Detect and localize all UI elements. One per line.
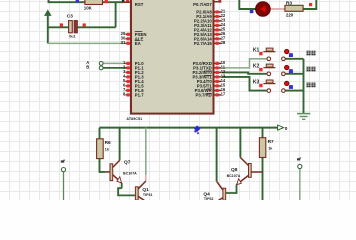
pin 6 P1.5 stub	[126, 85, 132, 87]
wire rail drop to R7 top	[262, 128, 264, 138]
svg-text:R6: R6	[105, 140, 111, 146]
wire pin 12 to button K2	[222, 72, 267, 73]
pin 11 P3.1 stub	[214, 67, 222, 69]
pin 24 P2.3 stub	[214, 24, 222, 26]
pin 22 P2.1 stub	[214, 16, 222, 18]
svg-text:Q8: Q8	[231, 167, 238, 173]
wire C3 left plate to VCC stem	[48, 26, 69, 28]
pin 21 P2.0 stub	[214, 11, 222, 13]
pin 28 P2.7 stub	[214, 42, 222, 44]
resistor R3	[285, 5, 303, 11]
node red square at C3 left pin	[60, 23, 63, 26]
pin 13 P3.3 stub	[214, 76, 222, 78]
svg-text:P0.7/AD7: P0.7/AD7	[193, 2, 212, 7]
node red square at K3	[259, 84, 262, 87]
svg-text:10K: 10K	[84, 6, 93, 11]
svg-text:BC107A: BC107A	[123, 172, 137, 176]
svg-text:P2.7/A15: P2.7/A15	[194, 41, 213, 46]
push button K2	[263, 64, 289, 76]
ground symbol	[297, 114, 310, 120]
push button K1	[263, 48, 289, 61]
svg-text:17: 17	[221, 92, 226, 97]
wire buttons common vertical to ground	[303, 59, 305, 113]
pin 1 P1.0 stub	[126, 62, 132, 64]
wire rail drop to Q8 collector	[239, 128, 241, 158]
resistor R6	[97, 139, 104, 159]
node blue square at LED anode	[250, 10, 254, 13]
resistor R1 10K at top (pull-up on RST)	[85, 0, 103, 5]
power rail arrow terminal pointing right	[278, 125, 284, 130]
LED D1	[256, 2, 271, 17]
svg-text:Q7: Q7	[124, 159, 131, 165]
wire main supply rail above transistor bridge	[100, 127, 283, 129]
wire R3 right end up to top edge	[303, 0, 316, 9]
terminal B circle	[99, 66, 103, 70]
chinese net label for K1	[307, 51, 316, 56]
pin 29 PSEN stub	[126, 33, 132, 35]
transistor Q1 TIP31	[135, 181, 145, 200]
resistor R7	[259, 138, 265, 158]
wire rail drop to Q4 collector	[216, 128, 218, 182]
wire R6 bottom to Q7 base	[100, 159, 106, 172]
wire resistor right end to RST pin of U1	[103, 1, 124, 3]
node blue square at K2	[289, 69, 293, 73]
net label above right terminal	[297, 157, 301, 160]
svg-text:TIP31: TIP31	[143, 193, 153, 197]
svg-text:AT89C51: AT89C51	[126, 117, 142, 121]
svg-text:EA: EA	[135, 41, 141, 46]
pin 26 P2.5 stub	[214, 33, 222, 35]
pin 25 P2.4 stub	[214, 29, 222, 31]
wire K1 right contact to common ground rail	[285, 58, 303, 60]
svg-text:K2: K2	[253, 64, 260, 70]
pin 3 P1.2 stub	[126, 71, 132, 73]
svg-text:BC107A: BC107A	[227, 174, 241, 178]
node red square at K1	[259, 52, 262, 55]
pin 7 P1.6 stub	[126, 89, 132, 91]
push button K3	[263, 80, 289, 92]
pin 2 P1.1 stub	[126, 67, 132, 69]
pin 8 P1.7 stub	[126, 94, 132, 96]
wire Q8 emitter to Q4 base	[226, 185, 237, 193]
node red square at RST pin	[126, 0, 129, 3]
wire right motor terminal drop to bottom edge	[299, 169, 301, 200]
pin RST stub (pin 9)	[122, 1, 131, 3]
wire pin 13 to button K3	[222, 77, 267, 91]
svg-text:RST: RST	[135, 2, 144, 7]
svg-text:P1.7: P1.7	[135, 92, 144, 97]
wire LED cathode to R3 (logic-high colored)	[270, 8, 285, 10]
pin 14 P3.4 stub	[214, 80, 222, 82]
svg-text:K3: K3	[253, 79, 260, 85]
pin 23 P2.2 stub	[214, 20, 222, 22]
wire VCC power stem vertical	[47, 15, 49, 44]
svg-text:TIP32: TIP32	[204, 197, 214, 200]
wire rail drop to R6 top	[99, 128, 101, 139]
net label above left terminal	[61, 160, 65, 163]
svg-text:R7: R7	[268, 139, 274, 145]
wire Q7 emitter to Q1 base	[118, 183, 135, 195]
svg-text:28: 28	[221, 40, 226, 45]
wire rail drop to Q1 collector (light/high)	[145, 128, 147, 175]
wire junction vertical from RST net down to C3 right plate	[115, 2, 117, 27]
svg-text:B: B	[86, 65, 89, 70]
chinese net label for K2	[307, 67, 316, 72]
node red square right of 10K resistor	[105, 0, 108, 3]
wire terminal A to pin 1 (P1.0)	[103, 62, 127, 64]
pin 15 P3.5 stub	[214, 85, 222, 87]
node blue square at K1	[289, 53, 293, 57]
capacitor C3	[69, 21, 78, 33]
power terminal arrow up	[45, 10, 51, 15]
svg-text:220: 220	[286, 12, 294, 17]
svg-text:K1: K1	[253, 48, 260, 54]
motor terminal left circle	[61, 168, 65, 172]
wire terminal A drop to bottom edge	[63, 172, 65, 200]
junction blue diamond on supply rail	[194, 125, 201, 134]
pin 30 ALE stub	[126, 38, 132, 40]
pin 12 P3.2 stub	[214, 71, 222, 73]
pin 5 P1.4 stub	[126, 80, 132, 82]
pin 31 EA stub	[126, 42, 132, 44]
wire Q1 collector riser lower pink segment	[145, 175, 147, 181]
wire P0.7 net down from top edge to LED anode	[239, 0, 255, 9]
wire pin 11 to button K1	[222, 59, 267, 68]
pin 10 P3.0 stub	[214, 62, 222, 64]
svg-text:31: 31	[121, 40, 126, 45]
wire rail drop to Q7 collector	[119, 128, 121, 161]
node red square at C3 right pin	[83, 23, 86, 26]
terminal A circle	[99, 62, 103, 66]
svg-text:C3: C3	[67, 13, 74, 19]
svg-text:0: 0	[285, 126, 288, 132]
wire K2 right contact to common ground rail	[285, 73, 303, 75]
wire C3 right plate to vertical junction	[77, 26, 115, 28]
wire R7 bottom lead down to bottom edge	[262, 158, 264, 201]
transistor Q4 TIP32 (mirrored)	[217, 181, 226, 200]
pin 27 P2.6 stub	[214, 38, 222, 40]
node red square at K2	[259, 68, 262, 71]
svg-text:R3: R3	[286, 0, 292, 6]
svg-text:0u1: 0u1	[69, 34, 75, 38]
wire terminal B to pin 2 (P1.1)	[103, 67, 127, 69]
transistor Q7 BC107A	[106, 160, 122, 183]
node blue square at K3	[289, 85, 293, 89]
pin 9 number blob	[122, 0, 125, 2]
pin 17 P3.7 stub	[214, 94, 222, 96]
microcontroller U1 AT89C51 body	[131, 0, 214, 114]
chinese net label for K3	[307, 83, 316, 88]
transistor Q8 BC107A (mirrored)	[237, 158, 263, 185]
motor terminal right circle	[298, 164, 302, 168]
wire RST net top-left vertical drop and run to resistor	[49, 0, 85, 2]
wire K3 right contact to common ground rail	[285, 90, 303, 92]
pin 16 P3.6 stub	[214, 89, 222, 91]
pin 32 stub P0.7/AD7	[214, 1, 222, 3]
node red square at R3 right pin	[309, 3, 312, 6]
pin 4 P1.3 stub	[126, 76, 132, 78]
wire EA net from VCC stem to pin 31	[48, 42, 128, 44]
node blue square left of 10K resistor	[76, 0, 79, 2]
